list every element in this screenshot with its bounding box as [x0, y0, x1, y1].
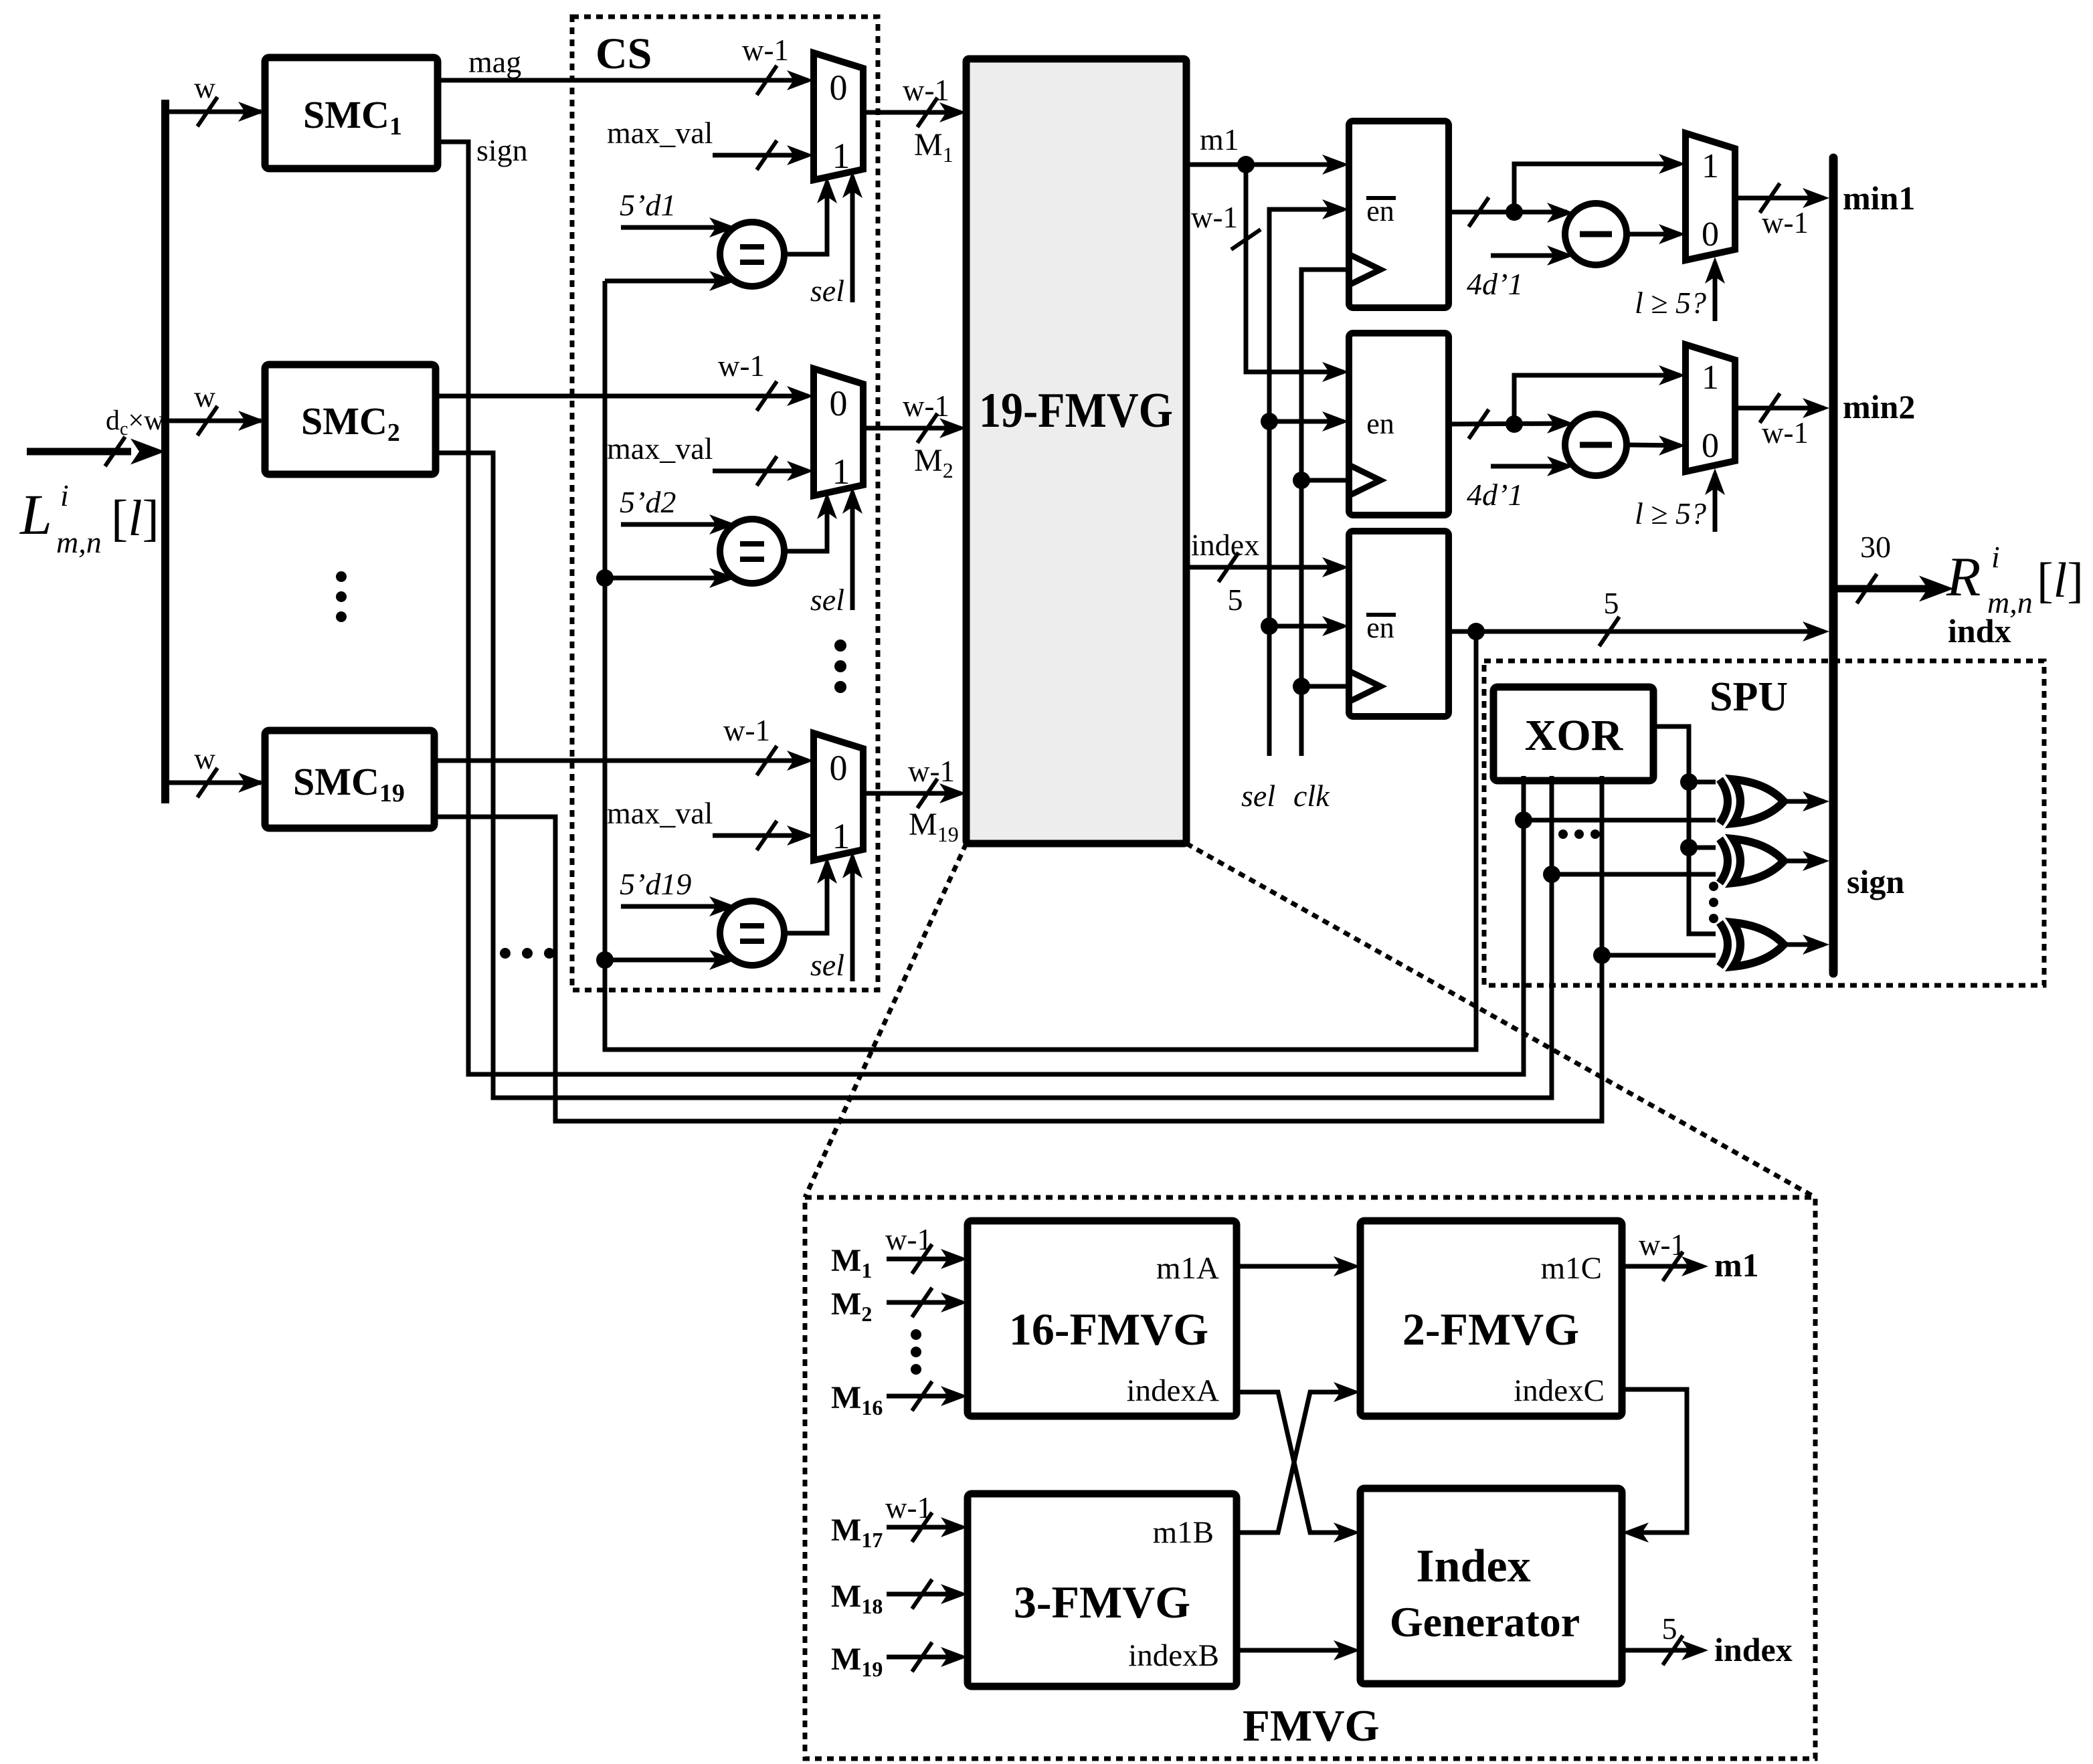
svg-text:1: 1	[1702, 359, 1719, 397]
wire sign SMC2	[436, 453, 1552, 1098]
svg-text:max_val: max_val	[607, 116, 713, 150]
svg-text:m1C: m1C	[1541, 1251, 1602, 1286]
svg-text:4d’1: 4d’1	[1467, 267, 1523, 301]
subtractor SUB1	[1565, 203, 1627, 265]
svg-text:w: w	[194, 381, 215, 413]
label sign	[476, 133, 528, 167]
svg-text:sel: sel	[810, 948, 844, 982]
svg-text:L: L	[19, 482, 52, 547]
wire max_val row3	[713, 821, 814, 850]
svg-text:w-1: w-1	[1191, 201, 1238, 234]
label w-1 M1	[903, 74, 949, 107]
mux CS1	[814, 53, 863, 180]
wire M16 in	[887, 1381, 968, 1411]
label w-1 min2	[1762, 416, 1809, 450]
label 4d'1 row1	[1467, 267, 1523, 301]
wire indexA cross	[1237, 1392, 1360, 1543]
svg-text:30: 30	[1860, 530, 1891, 564]
svg-text:SMC2: SMC2	[301, 399, 400, 447]
label w-1 m1 final	[1639, 1228, 1686, 1262]
dashed zoom line right	[1186, 844, 1815, 1197]
wire d_c x w input	[27, 437, 165, 466]
svg-text:m1B: m1B	[1153, 1515, 1214, 1550]
svg-text:w-1: w-1	[1762, 206, 1809, 239]
wire sub1 to mux	[1627, 224, 1686, 244]
svg-text:w: w	[194, 743, 215, 775]
block 3-FMVG	[968, 1494, 1237, 1686]
dots sign bundle	[500, 948, 555, 959]
wire w into SMC1	[165, 97, 265, 126]
label w-1 min1	[1762, 206, 1809, 239]
svg-text:w-1: w-1	[903, 74, 949, 107]
dots xor inputs	[1558, 829, 1600, 839]
label SPU	[1710, 674, 1788, 720]
block FMVG boundary	[805, 1197, 1815, 1759]
label max_val row3	[607, 796, 713, 830]
label max_val row2	[607, 431, 713, 466]
wire sel to reg3 en	[1269, 616, 1349, 636]
subtractor SUB2	[1565, 414, 1627, 476]
label M19 in	[831, 1642, 883, 1681]
wire 5'd1	[621, 217, 736, 237]
dots xor gates	[1709, 882, 1718, 923]
label min2	[1843, 388, 1915, 425]
wire indexB to IG	[1237, 1640, 1360, 1660]
svg-text:indexA: indexA	[1127, 1373, 1219, 1408]
wire 4d'1 row1	[1491, 246, 1574, 266]
svg-text:[l]: [l]	[111, 490, 159, 547]
block SMC19	[265, 730, 434, 828]
register REG1 min1	[1349, 121, 1449, 308]
label M19	[909, 807, 959, 846]
gate XOR1	[1720, 779, 1784, 823]
wire M17 in	[887, 1512, 968, 1542]
svg-text:M2: M2	[914, 443, 953, 482]
wire clk to reg3	[1301, 684, 1349, 689]
wire sel to reg2 en	[1269, 411, 1349, 431]
wire mag SMC2 to mux	[436, 381, 814, 411]
register REG3 index	[1349, 531, 1449, 716]
wire fb to mux2	[1514, 365, 1686, 424]
svg-text:index: index	[1191, 528, 1259, 562]
svg-text:w-1: w-1	[885, 1491, 932, 1525]
block Index Generator	[1360, 1488, 1622, 1684]
comparator EQ19	[720, 901, 784, 965]
svg-text:i: i	[60, 478, 69, 512]
svg-text:en: en	[1366, 407, 1394, 440]
label M1 in	[831, 1243, 872, 1282]
svg-text:l ≥ 5?: l ≥ 5?	[1635, 286, 1706, 320]
svg-text:w-1: w-1	[908, 755, 955, 788]
wire M19 to FMVG	[863, 779, 966, 808]
wire clk to reg2	[1301, 478, 1349, 483]
label w 2	[194, 381, 215, 413]
wire fb tap row1	[605, 271, 736, 291]
wire reg1 out	[1449, 197, 1574, 227]
wire min2 to bus	[1737, 393, 1829, 423]
wire m1B cross	[1237, 1382, 1360, 1533]
label M18 in	[831, 1579, 883, 1618]
label CS	[596, 29, 652, 78]
dots M inputs	[911, 1329, 921, 1375]
svg-text:5: 5	[1662, 1611, 1677, 1646]
label 5 indx	[1604, 586, 1619, 620]
svg-text:max_val: max_val	[607, 796, 713, 830]
svg-text:sign: sign	[1847, 863, 1904, 900]
wire EQ19 out to mux sel0	[784, 857, 837, 933]
svg-text:mag: mag	[468, 45, 521, 79]
svg-text:FMVG: FMVG	[1243, 1701, 1380, 1751]
svg-text:m,n: m,n	[1987, 585, 2033, 619]
svg-text:M1: M1	[831, 1243, 872, 1282]
label 5 index	[1228, 583, 1243, 617]
label sel row1	[810, 274, 844, 308]
svg-text:M2: M2	[831, 1286, 872, 1326]
svg-text:m1: m1	[1200, 122, 1239, 157]
register REG2 min2	[1349, 333, 1449, 515]
svg-text:w-1: w-1	[885, 1223, 932, 1256]
wire M1 in	[887, 1244, 968, 1274]
label w-1 row3 in	[723, 714, 770, 747]
svg-text:5: 5	[1604, 586, 1619, 620]
svg-text:w: w	[194, 72, 215, 104]
svg-text:Index: Index	[1416, 1541, 1530, 1592]
block 2-FMVG	[1360, 1221, 1622, 1416]
label min1	[1843, 179, 1915, 217]
svg-text:1: 1	[1702, 147, 1719, 185]
wire xor g2 lower	[1543, 866, 1716, 883]
wire l>=5 row1	[1705, 257, 1725, 321]
wire w into SMC2	[165, 406, 265, 435]
svg-text:4d’1: 4d’1	[1467, 478, 1523, 512]
svg-text:XOR: XOR	[1525, 711, 1624, 760]
block SPU boundary	[1484, 661, 2044, 985]
wire M2 to FMVG	[863, 413, 966, 443]
block CS boundary	[572, 17, 878, 990]
svg-text:0: 0	[830, 748, 848, 788]
svg-text:M1: M1	[914, 127, 953, 167]
label 30	[1860, 530, 1891, 564]
svg-text:2-FMVG: 2-FMVG	[1402, 1304, 1579, 1355]
wire M2 in	[887, 1288, 968, 1317]
wire indexC to IG	[1622, 1389, 1687, 1543]
label 5'd2	[620, 485, 676, 519]
wire xor1 out	[1784, 791, 1829, 811]
svg-text:M19: M19	[831, 1642, 883, 1681]
wire M19 in	[887, 1642, 968, 1672]
label 5'd1	[620, 188, 676, 222]
svg-text:w-1: w-1	[1639, 1228, 1686, 1262]
comparator EQ2	[720, 519, 784, 583]
svg-text:16-FMVG: 16-FMVG	[1009, 1304, 1208, 1355]
svg-text:SMC19: SMC19	[293, 760, 405, 807]
label M2 in	[831, 1286, 872, 1326]
block SMC1	[265, 58, 438, 169]
wire l>=5 row2	[1705, 468, 1725, 532]
label indx	[1948, 612, 2011, 650]
wire 5'd19	[621, 896, 736, 916]
wire 4d'1 row2	[1491, 456, 1574, 476]
wire sign SMC19	[434, 776, 1602, 1121]
wire xor g3 lower	[1593, 947, 1716, 964]
svg-text:sign: sign	[476, 133, 528, 167]
wire m1 to reg2	[1231, 165, 1349, 382]
node output bus	[1829, 158, 1838, 973]
wire sign SMC1	[438, 142, 1524, 1074]
block 16-FMVG	[968, 1221, 1237, 1416]
svg-text:5’d1: 5’d1	[620, 188, 676, 222]
svg-text:0: 0	[830, 68, 848, 108]
wire max_val row2	[713, 456, 814, 486]
label l>=5 row2	[1635, 496, 1706, 530]
svg-text:1: 1	[832, 452, 850, 492]
block 19-FMVG	[966, 59, 1186, 844]
svg-text:m1: m1	[1714, 1246, 1759, 1284]
wire sub2 to mux	[1627, 435, 1686, 456]
wire m1A to 2-FMVG	[1237, 1256, 1360, 1276]
wire R output	[1837, 574, 1954, 603]
label R i m,n [l]	[1946, 540, 2084, 619]
svg-text:w-1: w-1	[723, 714, 770, 747]
svg-text:M17: M17	[831, 1512, 883, 1552]
wire xor2 out	[1784, 851, 1829, 871]
dashed zoom line left	[805, 844, 966, 1197]
svg-text:SMC1: SMC1	[303, 93, 402, 140]
svg-text:SPU: SPU	[1710, 674, 1788, 720]
label sign out	[1847, 863, 1904, 900]
label m1 final	[1714, 1246, 1759, 1284]
wire 5'd2	[621, 514, 736, 534]
svg-text:1: 1	[832, 816, 850, 856]
wire EQ2 out to mux sel0	[784, 492, 837, 551]
wire fb tap row3	[596, 950, 736, 970]
wire sel row2	[842, 487, 862, 610]
svg-text:Generator: Generator	[1390, 1598, 1580, 1646]
wire M1 to FMVG	[863, 98, 966, 127]
svg-text:5’d19: 5’d19	[620, 867, 691, 901]
label mag	[468, 45, 521, 79]
dots between SMC2 and SMC19	[336, 571, 347, 622]
mux CS19	[814, 733, 863, 860]
label 4d'1 row2	[1467, 478, 1523, 512]
svg-text:5’d2: 5’d2	[620, 485, 676, 519]
wire xor g1 upper	[1689, 780, 1716, 785]
label index out	[1191, 528, 1259, 562]
svg-text:w-1: w-1	[718, 349, 765, 383]
svg-text:min1: min1	[1843, 179, 1915, 217]
wire mag SMC19 to mux	[434, 746, 814, 775]
svg-text:M16: M16	[831, 1380, 883, 1419]
svg-text:sel: sel	[810, 274, 844, 308]
label max_val row1	[607, 116, 713, 150]
label w-1 row2 in	[718, 349, 765, 383]
label M17 in	[831, 1512, 883, 1552]
wire clk stub	[1293, 270, 1349, 756]
wire XOR out	[1653, 726, 1716, 934]
wire w into SMC19	[165, 768, 265, 797]
wire sel row3	[842, 852, 862, 981]
label sel row2	[810, 583, 844, 617]
gate XOR3	[1720, 922, 1784, 967]
wire max_val row1	[713, 140, 814, 170]
label sel clk	[1241, 779, 1330, 813]
label w 1	[194, 72, 215, 104]
wire fb to mux1	[1514, 154, 1686, 212]
comparator EQ1	[720, 222, 784, 286]
block XOR	[1493, 687, 1653, 781]
svg-text:w-1: w-1	[1762, 416, 1809, 450]
label M1	[914, 127, 953, 167]
label w-1 M17 in	[885, 1491, 932, 1525]
svg-text:m,n: m,n	[56, 525, 102, 559]
label 5'd19	[620, 867, 691, 901]
svg-text:clk: clk	[1293, 779, 1330, 813]
svg-text:w-1: w-1	[742, 33, 789, 67]
svg-text:M19: M19	[909, 807, 959, 846]
label index final	[1714, 1631, 1793, 1668]
svg-text:sel: sel	[1241, 779, 1275, 813]
wire M18 in	[887, 1579, 968, 1609]
svg-text:R: R	[1946, 546, 1981, 608]
node input bus L	[161, 100, 169, 803]
wire mag SMC1 to mux	[438, 66, 814, 95]
svg-text:dc×w: dc×w	[106, 405, 165, 439]
wire sel stub	[1261, 199, 1349, 756]
wire fb tap row2	[596, 568, 736, 588]
wire index feedback	[605, 281, 1476, 1050]
svg-text:sel: sel	[810, 583, 844, 617]
svg-text:0: 0	[830, 383, 848, 423]
svg-text:[l]: [l]	[2037, 553, 2084, 608]
label M2	[914, 443, 953, 482]
label w 19	[194, 743, 215, 775]
label sel row3	[810, 948, 844, 982]
svg-text:min2: min2	[1843, 388, 1915, 425]
svg-text:1: 1	[832, 136, 850, 176]
dots CS rows	[834, 640, 846, 693]
wire sel row1	[842, 171, 862, 302]
svg-text:indexC: indexC	[1514, 1373, 1605, 1408]
svg-text:i: i	[1991, 540, 2000, 574]
svg-text:m1A: m1A	[1156, 1251, 1219, 1286]
wire index final out	[1622, 1636, 1708, 1665]
label M16 in	[831, 1380, 883, 1419]
svg-text:max_val: max_val	[607, 431, 713, 466]
svg-text:l ≥ 5?: l ≥ 5?	[1635, 496, 1706, 530]
label 5 index final	[1662, 1611, 1677, 1646]
wire indx to bus	[1449, 617, 1829, 646]
svg-text:index: index	[1714, 1631, 1793, 1668]
wire EQ1 out to mux sel0	[784, 177, 837, 254]
svg-text:indexB: indexB	[1128, 1638, 1219, 1673]
wire m1 out	[1186, 155, 1349, 175]
svg-text:5: 5	[1228, 583, 1243, 617]
wire index out	[1186, 553, 1349, 582]
wire min1 to bus	[1737, 183, 1829, 213]
label w-1 m1	[1191, 201, 1238, 234]
svg-text:0: 0	[1702, 427, 1719, 465]
wire reg2 out	[1449, 409, 1574, 439]
wire xor g2 upper	[1689, 846, 1716, 850]
gate XOR2	[1720, 839, 1784, 883]
label w-1 M1 in	[885, 1223, 932, 1256]
label w-1 M19	[908, 755, 955, 788]
label m1 out	[1200, 122, 1239, 157]
label w-1 M2	[903, 389, 949, 423]
svg-text:M18: M18	[831, 1579, 883, 1618]
svg-text:w-1: w-1	[903, 389, 949, 423]
wire xor g1 lower	[1515, 811, 1716, 829]
label dc x w	[106, 405, 165, 439]
svg-text:CS: CS	[596, 29, 652, 78]
mux CS2	[814, 369, 863, 496]
mux OUT1	[1686, 133, 1735, 260]
label L i m,n [l]	[19, 478, 159, 559]
wire xor3 out	[1784, 935, 1829, 955]
label w-1 row1 in	[742, 33, 789, 67]
label l>=5 row1	[1635, 286, 1706, 320]
label FMVG	[1243, 1701, 1380, 1751]
svg-text:19-FMVG: 19-FMVG	[979, 383, 1173, 438]
svg-text:0: 0	[1702, 215, 1719, 254]
block SMC2	[265, 365, 436, 474]
svg-text:3-FMVG: 3-FMVG	[1014, 1577, 1190, 1628]
wire m1 final out	[1622, 1252, 1708, 1281]
mux OUT2	[1686, 345, 1735, 472]
